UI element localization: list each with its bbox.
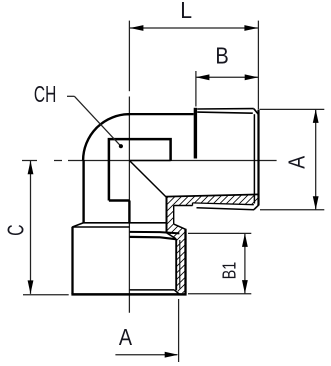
female wall left edge upper bbox=[166, 197, 168, 233]
CH square bbox=[109, 139, 171, 200]
svg-text:L: L bbox=[180, 0, 192, 23]
female bore bottom rim bbox=[129, 289, 174, 291]
male bore line (section) bbox=[166, 194, 259, 196]
socket top chamfer line bbox=[72, 226, 129, 228]
svg-text:A: A bbox=[284, 155, 310, 169]
CH leader dot bbox=[119, 144, 123, 148]
dim B1 bottom extension bbox=[188, 293, 251, 295]
socket outer right edge bbox=[184, 229, 186, 294]
hatch female wall bbox=[166, 197, 185, 293]
male root line (section) bbox=[193, 203, 254, 205]
dim B line bbox=[196, 76, 258, 78]
socket flare chamfer outer bbox=[174, 224, 186, 229]
female wall right edge upper bbox=[173, 205, 175, 224]
dim A right bottom extension bbox=[260, 209, 324, 211]
male crest upper line bbox=[197, 108, 254, 110]
svg-text:C: C bbox=[3, 224, 29, 235]
dim A bottom extension bbox=[178, 299, 180, 362]
CH square bottom edge on centerline bbox=[129, 160, 170, 162]
CH leader line bbox=[74, 96, 121, 146]
female thread entry chamfer bbox=[167, 233, 176, 239]
male end right edge bbox=[257, 110, 259, 206]
body top edge bbox=[128, 113, 194, 115]
male end chamfer bottom bbox=[254, 205, 259, 209]
socket bottom face bbox=[71, 293, 186, 296]
body arc outer corner bbox=[83, 114, 129, 160]
male end face inner line bbox=[253, 114, 255, 203]
socket top-left chamfer bbox=[72, 223, 83, 227]
female thread root start line bbox=[129, 232, 179, 234]
dim B1 top extension bbox=[188, 232, 251, 234]
dim L left arrow bbox=[130, 25, 144, 31]
male end chamfer top bbox=[254, 109, 259, 115]
dim B1 arrows bbox=[242, 233, 248, 247]
dim A right line bbox=[315, 109, 317, 209]
dim C bottom extension bbox=[23, 294, 69, 296]
socket left edge bbox=[71, 227, 73, 294]
dim L line bbox=[130, 27, 258, 29]
dim A bottom arrow bbox=[165, 352, 179, 358]
wire horizontal centerline bbox=[22, 160, 277, 162]
dim B left arrow bbox=[196, 74, 210, 80]
male thread start thick line bbox=[194, 108, 197, 159]
miter diagonal bbox=[129, 161, 166, 197]
dim A bottom line bbox=[115, 354, 177, 356]
svg-text:CH: CH bbox=[34, 82, 56, 108]
dim B1 line bbox=[244, 233, 246, 293]
hatch male wall bbox=[166, 195, 259, 206]
male thread runout step bbox=[192, 203, 194, 206]
dim B left extension line bbox=[195, 71, 197, 107]
female root line bbox=[179, 240, 181, 289]
dim A right arrows bbox=[313, 109, 319, 123]
socket top face bbox=[84, 222, 168, 224]
CH leader tick bbox=[67, 95, 74, 97]
male crest line (section) bbox=[197, 208, 255, 210]
dim C line bbox=[30, 161, 32, 294]
female crest line bbox=[175, 239, 177, 290]
body left edge bbox=[82, 160, 84, 223]
svg-text:B1: B1 bbox=[220, 262, 240, 279]
dim L right arrow bbox=[244, 25, 258, 31]
female thread crest start line bbox=[129, 237, 175, 239]
female bottom mouth chamfer bbox=[174, 290, 179, 294]
dim L right extension line bbox=[257, 21, 259, 110]
male shank bottom (section) bbox=[174, 205, 193, 207]
dim B right arrow bbox=[245, 74, 259, 80]
wire vertical centerline bbox=[128, 21, 130, 313]
male crest lower line bbox=[197, 112, 253, 113]
svg-text:A: A bbox=[119, 323, 133, 350]
bore edge on vertical centerline bbox=[128, 201, 130, 223]
dim A right top extension bbox=[260, 108, 325, 110]
svg-text:B: B bbox=[215, 42, 228, 69]
dim C arrows bbox=[28, 161, 34, 175]
